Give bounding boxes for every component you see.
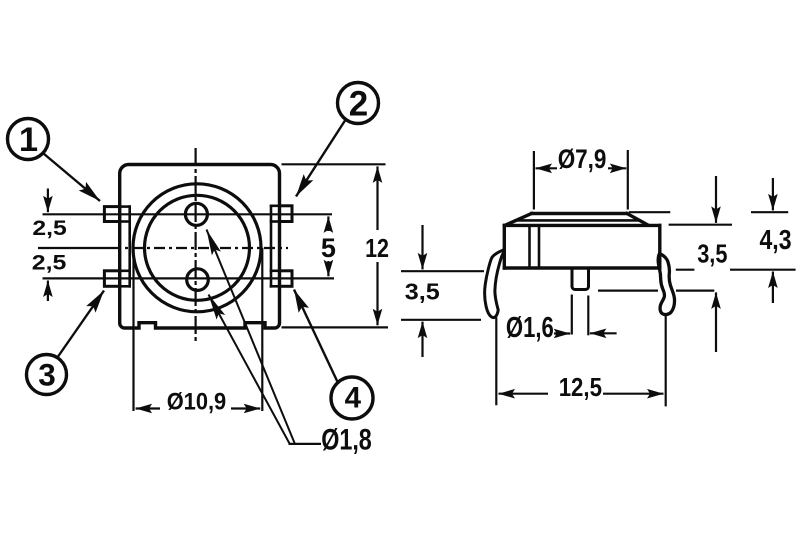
svg-text:3: 3 (38, 357, 56, 393)
svg-text:2,5: 2,5 (32, 252, 67, 275)
svg-text:1: 1 (19, 121, 38, 159)
svg-text:4,3: 4,3 (760, 224, 792, 255)
svg-text:12: 12 (365, 235, 389, 263)
svg-text:2,5: 2,5 (32, 217, 67, 240)
svg-text:2: 2 (349, 85, 368, 124)
svg-text:12,5: 12,5 (559, 374, 602, 402)
svg-text:5: 5 (321, 233, 336, 263)
svg-text:4: 4 (345, 382, 362, 415)
svg-text:3,5: 3,5 (405, 279, 440, 305)
svg-text:3,5: 3,5 (697, 239, 727, 269)
svg-text:Ø1,6: Ø1,6 (506, 312, 554, 344)
svg-text:Ø10,9: Ø10,9 (167, 388, 227, 415)
svg-text:Ø7,9: Ø7,9 (558, 144, 607, 174)
svg-text:Ø1,8: Ø1,8 (321, 424, 372, 457)
